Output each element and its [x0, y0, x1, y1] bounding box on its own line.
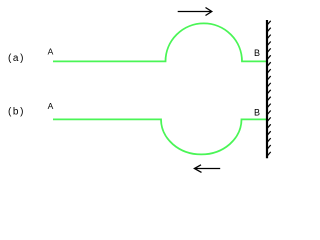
svg-text:B: B — [254, 108, 260, 118]
svg-text:A: A — [48, 46, 54, 56]
wire: string (b) with inverted pulse — [53, 119, 267, 154]
svg-text:(a): (a) — [8, 53, 25, 64]
svg-text:A: A — [48, 101, 54, 111]
wall hatching — [267, 21, 271, 157]
fixed wall — [266, 20, 268, 158]
wire: string (a) with upward pulse — [53, 23, 267, 61]
arrow: pulse direction left (bottom) — [194, 165, 220, 173]
svg-text:B: B — [254, 48, 260, 58]
arrow: pulse direction right (top) — [178, 8, 212, 16]
svg-text:(b): (b) — [8, 106, 25, 117]
